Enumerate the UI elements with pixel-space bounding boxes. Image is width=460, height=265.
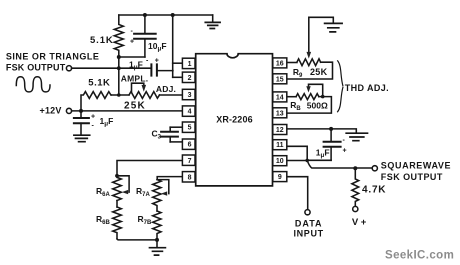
wire C3 to pin 6	[170, 141, 183, 143]
potentiometer R6A wiper hook	[117, 176, 129, 195]
svg-text:12: 12	[276, 127, 284, 134]
svg-text:14: 14	[276, 94, 284, 101]
svg-text:+: +	[155, 58, 159, 65]
svg-text:2: 2	[188, 75, 192, 82]
svg-text:XR-2206: XR-2206	[216, 114, 253, 124]
wire pin 1	[173, 62, 184, 64]
pin 2 box	[182, 72, 195, 82]
svg-text:15: 15	[276, 76, 284, 83]
wire node vertical (5.1K bottom down to resistor row)	[118, 57, 120, 95]
pin 13 box	[273, 108, 287, 118]
svg-text:16: 16	[276, 60, 284, 67]
capacitor 1uF (supply bypass)	[74, 111, 89, 135]
junction node A (5.1K / 10uF bottom)	[117, 55, 121, 59]
pin 5 box	[182, 122, 195, 132]
ground (supply bypass)	[74, 135, 90, 142]
svg-text:R7A: R7A	[136, 186, 150, 198]
ground (R6/R7 chains)	[150, 240, 166, 255]
terminal data input	[305, 210, 310, 215]
svg-text:5.1K: 5.1K	[88, 77, 110, 88]
wire RB right to pin 13	[287, 97, 331, 114]
wire R6A to R6B	[116, 201, 118, 208]
svg-text:25K: 25K	[124, 101, 146, 112]
pin 6 box	[182, 139, 195, 149]
svg-text:AMPL.: AMPL.	[121, 74, 149, 84]
junction node (output / 4.7K)	[353, 166, 357, 170]
svg-text:+: +	[130, 39, 134, 46]
wire vertical to pins 1,2 (grounded node)	[172, 15, 174, 77]
svg-text:4.7K: 4.7K	[362, 184, 386, 195]
svg-text:6: 6	[188, 142, 192, 149]
capacitor 1uF (coupling, horizontal)	[119, 64, 173, 75]
capacitor C3	[161, 127, 178, 142]
capacitor 10uF	[119, 15, 156, 57]
svg-text:ADJ.: ADJ.	[156, 84, 176, 94]
svg-text:R6A: R6A	[96, 186, 110, 198]
svg-text:+12V: +12V	[40, 105, 62, 115]
pin 16 box	[273, 58, 287, 68]
resistor R7B	[153, 211, 161, 240]
potentiometer 25K wiper hook	[132, 83, 147, 92]
svg-text:R6B: R6B	[96, 214, 110, 226]
svg-text:-: -	[146, 58, 149, 65]
junction node (pins 10-11 / 1uF)	[305, 159, 309, 163]
svg-text:R7B: R7B	[138, 214, 152, 226]
svg-text:7: 7	[188, 158, 192, 165]
potentiometer R7A wiper hook	[157, 180, 169, 196]
svg-text:THD ADJ.: THD ADJ.	[345, 83, 389, 93]
ground (R9 wiper)	[325, 23, 343, 32]
junction node (pin 12 / 1uF)	[329, 127, 333, 131]
svg-text:-: -	[92, 122, 95, 129]
wire R9 right to pin 15	[287, 62, 333, 79]
wire pot to pin 3	[160, 94, 184, 96]
wire pin 11	[287, 146, 307, 160]
svg-text:+: +	[343, 148, 347, 155]
terminal sine/triangle fsk output	[66, 66, 71, 71]
wire pin 7 down to R6A	[117, 161, 183, 176]
svg-text:5: 5	[188, 125, 192, 132]
junction node (pin 7 / R6A top)	[115, 174, 119, 178]
potentiometer R7A element	[153, 180, 161, 211]
svg-text:SINE OR TRIANGLE: SINE OR TRIANGLE	[6, 51, 100, 61]
IC U1 XR-2206 body	[196, 54, 273, 186]
svg-text:+: +	[91, 114, 95, 121]
terminal V+	[353, 206, 358, 211]
svg-text:10: 10	[276, 158, 284, 165]
svg-text:V+: V+	[352, 217, 369, 228]
wire pin 14 to RB	[287, 96, 296, 98]
potentiometer R6A element	[113, 176, 122, 201]
pin 8 box	[182, 172, 195, 182]
ground (top rail)	[205, 15, 220, 29]
pin 1 box	[182, 58, 195, 68]
svg-text:FSK OUTPUT: FSK OUTPUT	[6, 62, 66, 72]
capacitor 1uF (pin 12 bypass)	[307, 129, 340, 160]
svg-text:11: 11	[276, 142, 284, 149]
svg-text:C3: C3	[152, 129, 162, 141]
svg-text:R9: R9	[293, 67, 303, 79]
pin 11 box	[273, 140, 287, 150]
pin 12 box	[273, 125, 287, 135]
svg-text:FSK OUTPUT: FSK OUTPUT	[381, 172, 443, 182]
svg-text:1μF: 1μF	[316, 148, 330, 160]
resistor 5.1K (top left vertical)	[114, 15, 123, 57]
resistor R6B	[113, 207, 122, 239]
junction node (+12V / bypass cap)	[79, 109, 83, 113]
junction node (5.1K / 25K pot)	[117, 93, 121, 97]
svg-text:1μF: 1μF	[100, 116, 114, 128]
svg-text:500Ω: 500Ω	[307, 100, 328, 110]
svg-text:RB: RB	[290, 100, 301, 112]
junction node (FSK output tap)	[117, 66, 121, 70]
wire fsk output to node	[72, 67, 119, 69]
wire pin 10	[287, 160, 307, 162]
terminal +12V	[66, 108, 71, 113]
resistor 5.1K (horizontal)	[81, 92, 111, 111]
wire ground rail top	[119, 14, 213, 16]
ground (pin 12)	[346, 133, 367, 141]
svg-text:DATA: DATA	[295, 218, 323, 228]
pin 4 box	[182, 106, 195, 116]
wire +12V to pin 4	[72, 110, 184, 112]
pin 10 box	[273, 156, 287, 166]
resistor 4.7K	[352, 168, 359, 206]
svg-text:9: 9	[278, 174, 282, 181]
svg-text:3: 3	[188, 92, 192, 99]
potentiometer 25K element	[129, 92, 160, 99]
svg-text:8: 8	[188, 175, 192, 182]
svg-text:SeekIC.com: SeekIC.com	[385, 249, 454, 261]
wire squarewave output	[307, 160, 372, 168]
potentiometer R9 25K element	[297, 59, 321, 66]
pin 3 box	[182, 89, 195, 99]
potentiometer R9 wiper to ground	[307, 17, 334, 58]
junction node (10uF top / ground rail)	[143, 13, 147, 17]
svg-text:10μF: 10μF	[148, 41, 167, 53]
svg-text:SQUAREWAVE: SQUAREWAVE	[381, 160, 451, 170]
svg-text:25K: 25K	[310, 67, 328, 77]
pin 15 box	[273, 74, 287, 84]
pin 7 box	[182, 155, 195, 165]
sine symbol	[16, 77, 50, 92]
svg-text:4: 4	[188, 109, 192, 116]
svg-text:INPUT: INPUT	[294, 228, 324, 238]
wire pin 9 to data input	[287, 177, 308, 210]
potentiometer RB 500ohm element	[296, 94, 319, 100]
brace THD ADJ	[338, 61, 343, 112]
terminal squarewave output	[372, 166, 377, 171]
svg-text:5.1K: 5.1K	[90, 35, 114, 46]
svg-text:-: -	[131, 28, 134, 35]
wire pin 12 to ground	[287, 129, 356, 132]
pin 14 box	[273, 92, 287, 102]
pin 9 box	[273, 172, 287, 182]
wire pin 2	[173, 76, 184, 78]
wire R6B bottom to ground node	[117, 239, 157, 240]
C3 wire pin 5	[170, 126, 183, 128]
wire between 5.1K and 25K pot	[111, 94, 129, 96]
wire pin 8 to R7A	[157, 177, 183, 180]
svg-text:13: 13	[276, 110, 284, 117]
potentiometer RB wiper hook	[306, 84, 322, 96]
svg-text:1μF: 1μF	[129, 59, 143, 71]
svg-text:1: 1	[188, 61, 192, 68]
junction node (R6B/R7B ground)	[155, 238, 159, 242]
junction node (pins 1-2 riser / ground rail)	[171, 13, 175, 17]
svg-text:-: -	[343, 137, 346, 144]
junction node (RB wiper tie)	[321, 95, 325, 99]
wire pin 16 to R9	[287, 62, 297, 64]
